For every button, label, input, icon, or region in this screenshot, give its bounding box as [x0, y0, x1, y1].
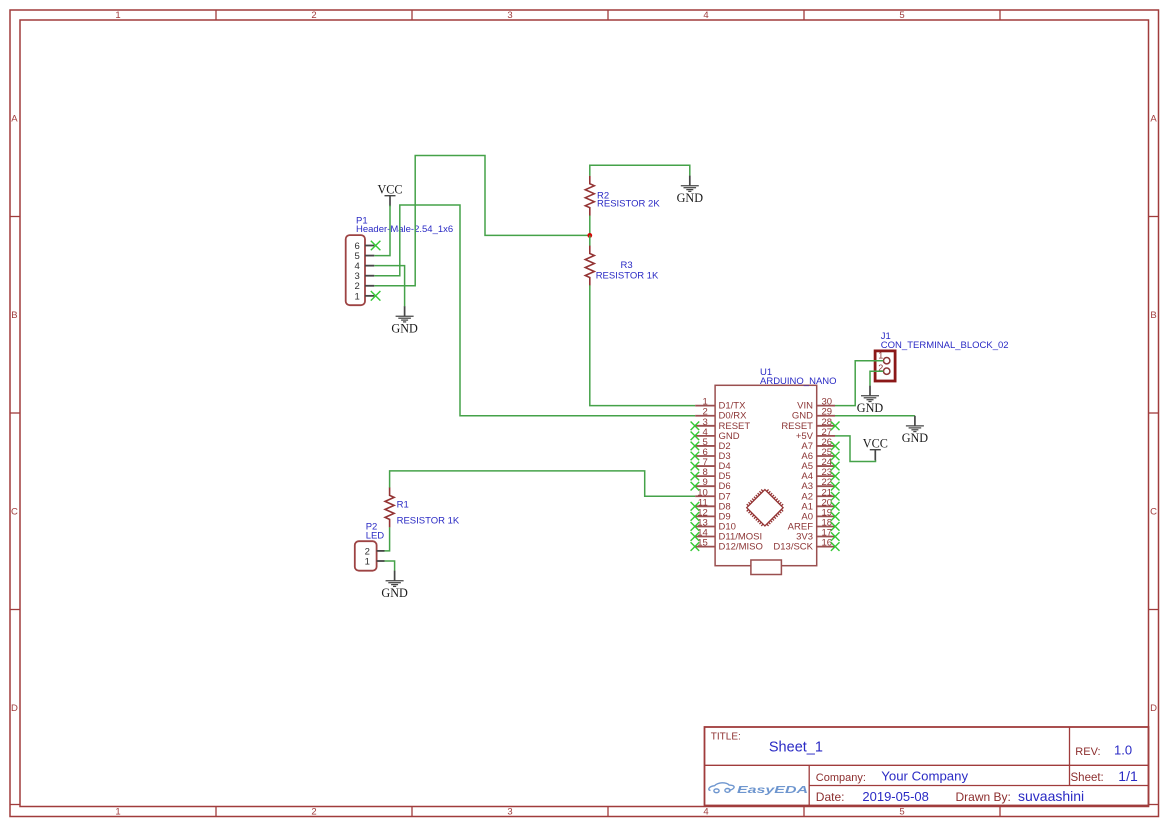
ground GND (J1 pin 2) [857, 386, 884, 415]
no-connect X U1 pin 19 [831, 512, 840, 521]
ground GND (U1 pin 29) [902, 416, 929, 445]
U1 pin 6 D3 [695, 447, 730, 462]
svg-text:A: A [11, 114, 18, 125]
svg-text:1: 1 [115, 10, 120, 21]
wire P1 pin 2 to node R2/R3 [374, 156, 590, 286]
no-connect X P1 pin 6 [371, 241, 381, 251]
U1 pin 27 +5V [796, 427, 835, 442]
connector J1 CON_TERMINAL_BLOCK_02 [875, 350, 895, 381]
svg-text:Header-Male-2.54_1x6: Header-Male-2.54_1x6 [356, 224, 453, 235]
U1 pin 29 GND [792, 407, 835, 422]
svg-text:1/1: 1/1 [1118, 768, 1138, 784]
svg-text:Company:: Company: [816, 772, 866, 784]
R3 refdes label [621, 260, 633, 271]
junction node R2/R3/P1.2/divider [587, 233, 592, 238]
no-connect X U1 pin 11 [691, 502, 700, 511]
svg-text:ARDUINO_NANO: ARDUINO_NANO [760, 376, 837, 387]
svg-text:5: 5 [899, 807, 904, 818]
J1 value label [881, 340, 1009, 351]
svg-text:2: 2 [311, 807, 316, 818]
U1 pin 1 D1/TX [695, 397, 746, 412]
wire U1 +5V to VCC [835, 436, 876, 462]
U1 refdes label [760, 367, 772, 378]
U1 pin 14 D11/MOSI [695, 528, 762, 543]
R1 value label [397, 516, 460, 527]
svg-text:RESISTOR 1K: RESISTOR 1K [596, 270, 659, 281]
no-connect X U1 pin 18 [831, 522, 840, 531]
P2 value label [366, 530, 385, 541]
wire node to R3 top [589, 235, 591, 245]
no-connect X U1 pin 20 [831, 502, 840, 511]
U1 pin 17 3V3 [796, 528, 835, 543]
no-connect X U1 pin 28 [831, 421, 840, 430]
svg-text:RESISTOR 2K: RESISTOR 2K [597, 198, 660, 209]
svg-text:VCC: VCC [377, 183, 402, 197]
wire R3 bottom to U1 D1/TX [590, 285, 695, 405]
U1 pin 16 D13/SCK [773, 538, 835, 553]
U1 pin 7 D4 [695, 457, 730, 472]
svg-text:GND: GND [381, 586, 408, 600]
svg-text:GND: GND [677, 191, 704, 205]
svg-text:LED: LED [366, 530, 385, 541]
svg-text:5: 5 [899, 10, 904, 21]
U1 pin 21 A2 [801, 487, 835, 502]
wire R1 top to U1 D7 [390, 471, 696, 496]
no-connect X U1 pin 24 [831, 462, 840, 471]
wire P1 pin 3 to U1 D0/RX [374, 205, 695, 416]
no-connect X U1 pin 21 [831, 492, 840, 501]
U1 pin 9 D6 [695, 477, 730, 492]
U1 pin 22 A3 [801, 477, 835, 492]
no-connect X U1 pin 15 [691, 542, 700, 551]
svg-text:EasyEDA: EasyEDA [737, 785, 808, 796]
svg-text:Your Company: Your Company [881, 769, 968, 784]
svg-text:C: C [1150, 507, 1157, 518]
svg-text:D13/SCK: D13/SCK [773, 542, 813, 553]
wire P1 pin 5 to VCC [374, 205, 390, 255]
U1 pin 13 D10 [695, 517, 736, 532]
U1 pin 20 A1 [801, 497, 835, 512]
U1 pin 26 A7 [801, 437, 835, 452]
no-connect X U1 pin 13 [691, 522, 700, 531]
svg-text:R3: R3 [621, 260, 633, 271]
svg-text:2019-05-08: 2019-05-08 [862, 789, 929, 804]
ground GND (P1 pin 4) [391, 306, 418, 335]
connector P2 (LED) [355, 541, 385, 571]
svg-text:B: B [11, 310, 17, 321]
U1 pin 18 AREF [788, 517, 835, 532]
R2 refdes label [597, 190, 609, 201]
svg-text:2: 2 [311, 10, 316, 21]
U1 pin 10 D7 [695, 487, 730, 502]
no-connect X U1 pin 6 [691, 452, 700, 461]
P2 refdes label [366, 522, 378, 533]
svg-text:GND: GND [391, 322, 418, 336]
svg-text:R1: R1 [397, 500, 409, 511]
wire U1 GND to GND flag [835, 415, 915, 417]
svg-text:D: D [1150, 703, 1157, 714]
J1 refdes label [881, 331, 891, 342]
svg-text:4: 4 [703, 807, 708, 818]
U1 pin 24 A5 [801, 457, 835, 472]
R3 value label [596, 270, 659, 281]
no-connect X U1 pin 22 [831, 482, 840, 491]
svg-text:Drawn By:: Drawn By: [956, 790, 1011, 804]
svg-text:3: 3 [507, 10, 512, 21]
svg-text:1: 1 [355, 291, 360, 302]
IC U1 ARDUINO_NANO body [715, 385, 817, 574]
no-connect X U1 pin 12 [691, 512, 700, 521]
no-connect X U1 pin 4 [691, 432, 700, 441]
U1 pin 3 RESET [695, 417, 750, 432]
ground GND (R2 top) [677, 176, 704, 205]
R1 refdes label [397, 500, 409, 511]
svg-text:A: A [1150, 114, 1157, 125]
svg-text:B: B [1150, 310, 1156, 321]
svg-text:RESISTOR 1K: RESISTOR 1K [397, 516, 460, 527]
svg-text:Date:: Date: [816, 790, 845, 804]
svg-text:D12/MISO: D12/MISO [719, 542, 763, 553]
wire J1 pin 2 to GND [870, 371, 883, 386]
no-connect X U1 pin 5 [691, 442, 700, 451]
wire R2 bottom to node [589, 216, 591, 236]
U1 pin 2 D0/RX [695, 407, 747, 422]
wire P2 pin 1 to GND [385, 561, 395, 571]
svg-text:16: 16 [822, 538, 833, 549]
no-connect X U1 pin 26 [831, 442, 840, 451]
U1 pin 4 GND [695, 427, 740, 442]
R2 value label [597, 198, 660, 209]
svg-text:3: 3 [507, 807, 512, 818]
no-connect X U1 pin 14 [691, 532, 700, 541]
P1 refdes label [356, 216, 368, 227]
U1 pin 8 D5 [695, 467, 730, 482]
power flag VCC (U1 +5V) [863, 437, 888, 461]
svg-text:Sheet_1: Sheet_1 [769, 740, 823, 756]
U1 pin 5 D2 [695, 437, 730, 452]
svg-text:suvaashini: suvaashini [1018, 788, 1084, 804]
P1 value label [356, 224, 453, 235]
power flag VCC (net of P1 pin 5) [377, 183, 402, 207]
no-connect X U1 pin 16 [831, 542, 840, 551]
svg-text:1: 1 [878, 350, 883, 360]
U1 pin 25 A6 [801, 447, 835, 462]
wire R2 top to GND [590, 165, 690, 176]
wire R1 bottom to P2 pin 2 [385, 527, 390, 551]
svg-text:GND: GND [857, 401, 884, 415]
resistor R1 [385, 487, 394, 527]
connector P1 [346, 235, 375, 305]
U1 pin 11 D8 [695, 497, 730, 512]
no-connect X U1 pin 7 [691, 462, 700, 471]
U1 pin 23 A4 [801, 467, 835, 482]
U1 pin 28 RESET [781, 417, 835, 432]
resistor R2 [585, 176, 594, 216]
no-connect X U1 pin 17 [831, 532, 840, 541]
ground GND (P2 pin 1) [381, 571, 408, 600]
svg-text:1.0: 1.0 [1114, 743, 1132, 758]
svg-text:REV:: REV: [1075, 746, 1100, 758]
no-connect X P1 pin 1 [371, 291, 381, 301]
U1 pin 12 D9 [695, 507, 730, 522]
U1 pin 15 D12/MISO [695, 538, 763, 553]
svg-text:TITLE:: TITLE: [711, 732, 741, 743]
svg-text:CON_TERMINAL_BLOCK_02: CON_TERMINAL_BLOCK_02 [881, 340, 1009, 351]
svg-text:GND: GND [902, 431, 929, 445]
svg-text:1: 1 [115, 807, 120, 818]
svg-text:D: D [11, 703, 18, 714]
no-connect X U1 pin 23 [831, 472, 840, 481]
U1 value label [760, 376, 837, 387]
no-connect X U1 pin 8 [691, 472, 700, 481]
svg-text:1: 1 [365, 556, 370, 567]
U1 pin 19 A0 [801, 507, 835, 522]
svg-text:4: 4 [703, 10, 708, 21]
wire U1 VIN to J1 pin 1 [835, 361, 883, 406]
svg-text:C: C [11, 507, 18, 518]
no-connect X U1 pin 3 [691, 421, 700, 430]
wire P1 pin 4 to GND [374, 266, 404, 307]
svg-text:VCC: VCC [863, 437, 888, 451]
svg-text:Sheet:: Sheet: [1071, 772, 1104, 784]
U1 pin 30 VIN [797, 397, 835, 412]
no-connect X U1 pin 9 [691, 482, 700, 491]
no-connect X U1 pin 25 [831, 452, 840, 461]
resistor R3 [585, 246, 594, 286]
